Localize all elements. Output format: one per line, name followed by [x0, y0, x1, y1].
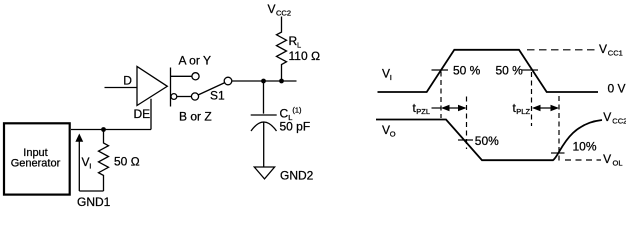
svg-text:I: I	[89, 161, 91, 170]
svg-text:DE: DE	[134, 107, 151, 121]
svg-text:10%: 10%	[573, 140, 597, 154]
svg-text:CC1: CC1	[608, 48, 623, 57]
svg-text:A or Y: A or Y	[179, 54, 211, 68]
svg-text:50 Ω: 50 Ω	[114, 155, 140, 169]
svg-text:OL: OL	[613, 158, 623, 167]
svg-text:D: D	[123, 74, 132, 88]
svg-text:GND1: GND1	[77, 195, 111, 209]
svg-text:PLZ: PLZ	[516, 107, 530, 116]
svg-text:PZL: PZL	[416, 107, 430, 116]
svg-text:V: V	[603, 152, 611, 166]
svg-text:B or Z: B or Z	[179, 109, 212, 123]
svg-text:O: O	[390, 129, 396, 138]
svg-text:50%: 50%	[475, 134, 499, 148]
svg-text:C: C	[280, 107, 289, 121]
svg-text:0 V: 0 V	[608, 82, 626, 96]
svg-text:CC2: CC2	[276, 8, 291, 17]
svg-text:V: V	[599, 42, 607, 56]
svg-text:50 pF: 50 pF	[280, 120, 311, 134]
svg-text:(1): (1)	[292, 106, 302, 115]
svg-text:Generator: Generator	[11, 158, 61, 170]
svg-text:50 %: 50 %	[496, 64, 524, 78]
svg-text:CC2: CC2	[612, 117, 626, 126]
svg-text:110 Ω: 110 Ω	[289, 49, 321, 63]
svg-text:S1: S1	[210, 88, 225, 102]
svg-text:V: V	[603, 110, 611, 124]
svg-text:50 %: 50 %	[453, 64, 481, 78]
svg-text:GND2: GND2	[280, 169, 314, 183]
svg-text:I: I	[390, 73, 392, 82]
svg-text:V: V	[268, 2, 276, 16]
